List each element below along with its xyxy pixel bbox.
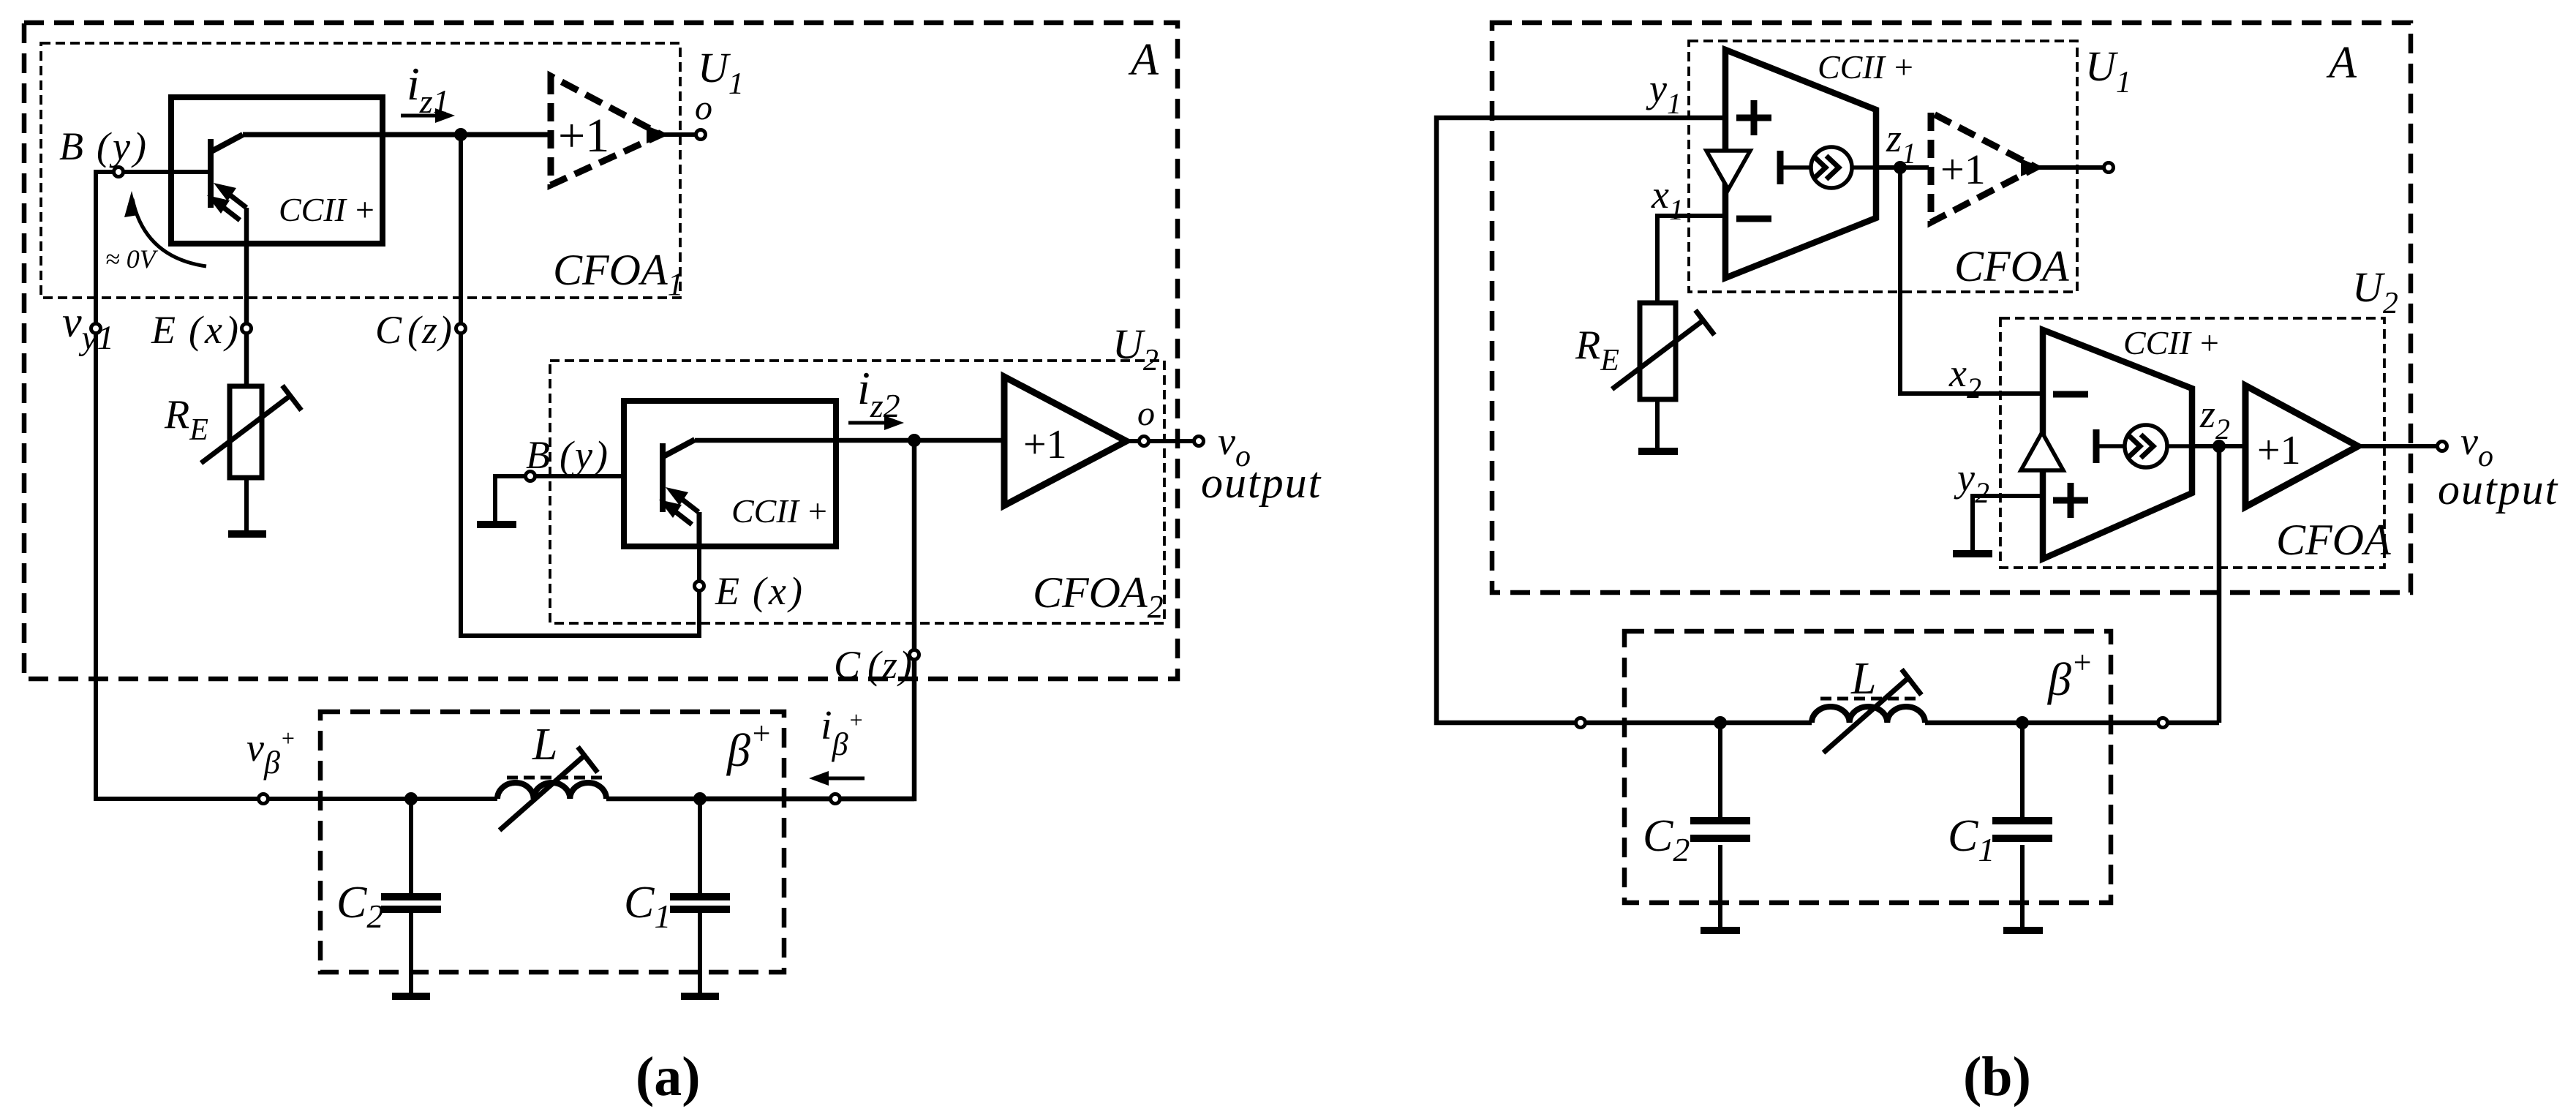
svg-text:output: output	[1201, 459, 1322, 507]
inductor L adjust arrow (panel b)	[1823, 677, 1909, 753]
CFOA1 inner dotted box	[41, 43, 680, 298]
resistor RE arrow head bar	[282, 386, 301, 410]
0V arrowhead	[124, 191, 138, 217]
svg-text:C(z): C(z)	[834, 643, 914, 687]
junction node C2 top (panel b)	[1714, 716, 1727, 729]
ground at B(y)2 stub	[477, 521, 516, 528]
ground under RE (panel b)	[1638, 448, 1678, 455]
wire tank right segment	[606, 797, 914, 802]
svg-text:L: L	[1850, 654, 1876, 704]
svg-text:B(y): B(y)	[526, 433, 610, 477]
resistor RE adjust arrow	[201, 395, 291, 463]
wire emitter of Q1 down through E(x) to resistor RE	[244, 208, 249, 386]
wire y1 feedback rail	[1436, 118, 1812, 723]
buffer U1 apex arrowhead	[647, 126, 669, 143]
wire z1 vertical C(z) to E(x) of CCII2	[461, 135, 699, 636]
wire U1 buffer output (panel b)	[2036, 165, 2104, 170]
junction node z2 (panel b)	[2212, 440, 2226, 453]
terminal C(z)1	[456, 324, 466, 334]
svg-text:≈ 0V: ≈ 0V	[105, 244, 159, 274]
transistor Q2 emitter arrow 2	[659, 500, 692, 524]
junction node C2 top	[404, 792, 418, 805]
transistor Q2 base bar	[660, 443, 666, 512]
svg-text:CCII+: CCII+	[279, 191, 376, 228]
junction node z1 (panel b)	[1894, 161, 1907, 174]
inductor L arrow head bar (panel b)	[1902, 669, 1921, 695]
wire U1 buffer output to open terminal o	[660, 132, 701, 137]
resistor RE body (panel a)	[230, 386, 262, 478]
svg-text:CFOA: CFOA	[2276, 516, 2391, 564]
junction node C1 top (panel b)	[2016, 716, 2029, 729]
transistor Q2 collector diagonal	[663, 440, 695, 456]
wire RE bottom to ground	[244, 478, 249, 532]
buffer U2 solid triangle (panel b)	[2245, 386, 2358, 507]
CCII2 trapezoid (panel b)	[2043, 330, 2192, 559]
CCII1 trapezoid (panel b)	[1725, 50, 1876, 278]
CCII1 follower triangle	[1706, 151, 1750, 189]
transistor Q2 emitter vertical	[697, 512, 702, 546]
wire RE bottom to ground (panel b)	[1655, 399, 1660, 448]
svg-text:o: o	[1137, 394, 1155, 433]
buffer U1 dashed triangle +1	[551, 76, 661, 185]
wire C2 branch top	[409, 799, 413, 893]
terminal B(y)2	[526, 472, 535, 481]
wire B(y) node to left rail and down to tank	[96, 172, 497, 799]
0V curved arrow	[132, 199, 206, 266]
CFOA1 inner dotted box (panel b)	[1689, 41, 2077, 292]
buffer U1 dashed triangle (panel b)	[1931, 113, 2036, 222]
ground at y2 stub	[1953, 550, 1992, 557]
ground under C2 (panel b)	[1701, 927, 1740, 934]
terminal vo (panel b)	[2438, 442, 2447, 451]
buffer U2 solid triangle +1	[1004, 377, 1126, 505]
capacitor C1 plates (panel a)	[670, 897, 730, 909]
wire z2: collector of Q2 to buffer U2 input	[695, 438, 1004, 443]
resistor RE arrow head bar (panel b)	[1695, 310, 1714, 335]
capacitor C2 plates (panel b)	[1690, 821, 1750, 838]
svg-text:CCII+: CCII+	[1818, 48, 1915, 86]
ground under C2 (panel a)	[392, 993, 430, 1000]
terminal tank right (panel b)	[2158, 718, 2168, 728]
iz1 current arrow	[401, 108, 455, 123]
svg-text:B(y): B(y)	[59, 124, 149, 168]
wire z1 out of CCII1	[1876, 165, 1929, 170]
svg-text:(b): (b)	[1963, 1046, 2031, 1107]
inductor L adjust arrow	[500, 755, 585, 830]
terminal vo (panel a)	[1194, 437, 1204, 446]
svg-text:o: o	[695, 89, 712, 127]
ground under C1 (panel a)	[681, 993, 719, 1000]
transistor Q1 collector diagonal	[211, 135, 243, 151]
terminal o1	[696, 130, 706, 140]
CFOA2 inner dotted box (panel b)	[2000, 318, 2384, 568]
svg-text:CFOA1: CFOA1	[553, 246, 684, 302]
terminal E(x)1	[242, 324, 252, 334]
transistor Q1 emitter arrow 2	[207, 195, 240, 220]
svg-text:CFOA2: CFOA2	[1033, 568, 1164, 625]
svg-text:+1: +1	[1940, 146, 1986, 193]
inductor L dashed overline	[507, 776, 602, 780]
wire z1 down to x2	[1900, 168, 2043, 394]
svg-text:+1: +1	[558, 109, 609, 162]
svg-text:CFOA: CFOA	[1954, 242, 2069, 290]
inductor L coils (panel b)	[1812, 707, 1925, 723]
CCII2 minus input sign	[2053, 391, 2088, 398]
wire tank right segment (panel b)	[1925, 721, 2219, 726]
svg-text:(a): (a)	[636, 1046, 701, 1107]
CCII1 mirror output wire	[1852, 165, 1876, 170]
inductor L coils (panel a)	[497, 783, 606, 799]
capacitor C1 plates (panel b)	[1992, 821, 2052, 838]
ibeta+ current arrow (panel a)	[809, 771, 865, 786]
wire U2 buffer output to vo terminal	[1126, 439, 1199, 443]
wire x1 to RE	[1657, 216, 1725, 303]
CCII2 mirror input wire	[2096, 444, 2125, 448]
resistor RE body (panel b)	[1640, 303, 1676, 399]
capacitor C2 plates (panel a)	[381, 897, 441, 909]
beta+ resonator dashed box (panel a)	[320, 712, 784, 972]
junction node z2	[908, 434, 921, 447]
terminal o2	[1140, 437, 1149, 446]
terminal E(x)2	[695, 582, 704, 591]
wire C1 branch top	[698, 799, 702, 893]
terminal vbeta+	[259, 794, 268, 804]
block A outer dashed box (panel b)	[1492, 23, 2411, 593]
junction node C1 top	[693, 792, 707, 805]
wire C2 branch (panel b)	[1718, 723, 1722, 928]
terminal U1 output (panel b)	[2104, 163, 2114, 173]
terminal ibeta+ (panel a)	[831, 794, 840, 804]
CCII block 2 thick rectangle	[624, 401, 836, 546]
svg-text:output: output	[2438, 465, 2558, 514]
wire B(y)2 ground stub	[495, 476, 624, 522]
terminal C(z)2	[910, 650, 919, 660]
beta+ resonator dashed box (panel b)	[1624, 631, 2111, 903]
CCII2 mirror input bar	[2093, 429, 2100, 463]
CCII1 mirror chevrons	[1813, 156, 1839, 179]
wire C1 branch (panel b)	[2020, 723, 2025, 928]
inductor L dashed overline (panel b)	[1820, 697, 1920, 701]
transistor Q2 emitter arrow 1	[666, 487, 698, 512]
svg-text:E(x): E(x)	[715, 569, 805, 613]
wire z1 top: collector of Q1 to buffer U1 input	[243, 132, 551, 138]
svg-text:+1: +1	[2257, 428, 2301, 473]
svg-text:CCII+: CCII+	[2123, 324, 2221, 361]
transistor Q1 emitter arrow 1	[214, 183, 246, 208]
svg-text:CCII+: CCII+	[731, 492, 829, 530]
CCII1 mirror circle	[1811, 147, 1852, 188]
CCII1 mirror input bar	[1777, 151, 1784, 184]
transistor Q1 base bar	[208, 139, 214, 208]
terminal B(y)1	[114, 168, 124, 177]
ground under RE (panel a)	[228, 530, 266, 538]
inductor L arrow head bar	[578, 747, 598, 772]
svg-text:L: L	[532, 720, 557, 770]
terminal vy1	[91, 324, 101, 334]
wire U2 buffer output to vo (panel b)	[2358, 444, 2438, 448]
CCII1 mirror input wire	[1780, 165, 1811, 170]
wire z2 vertical down through C(z) to tank	[698, 440, 914, 799]
svg-text:E(x): E(x)	[151, 308, 241, 352]
wire z2 out of CCII2	[2192, 444, 2245, 448]
block A outer dashed box (panel a)	[24, 23, 1178, 679]
resistor RE adjust arrow (panel b)	[1612, 320, 1704, 389]
CCII2 mirror chevrons	[2128, 435, 2153, 458]
wire C2 branch bottom	[409, 912, 413, 993]
terminal tank left (panel b)	[1576, 718, 1586, 728]
buffer U1 apex arrowhead (panel b)	[2021, 159, 2042, 176]
CCII2 follower triangle	[2021, 432, 2063, 470]
wire y2 ground stub	[1973, 496, 2043, 550]
wire z2 down to tank	[2217, 446, 2222, 723]
CFOA2 inner dotted box	[550, 361, 1164, 623]
svg-text:C(z): C(z)	[375, 308, 453, 352]
ground under C1 (panel b)	[2003, 927, 2043, 934]
junction node z1	[454, 128, 467, 141]
CCII1 plus input sign	[1736, 100, 1771, 135]
CCII2 mirror output wire	[2167, 444, 2192, 448]
CCII2 mirror circle	[2125, 425, 2167, 467]
svg-text:+1: +1	[1023, 422, 1067, 467]
CCII block 1 thick rectangle	[171, 97, 383, 244]
CCII2 plus input sign	[2053, 483, 2088, 518]
svg-text:A: A	[1128, 35, 1159, 85]
CCII1 minus input sign	[1736, 216, 1771, 222]
wire C1 branch bottom	[698, 912, 702, 993]
iz2 current arrow	[848, 415, 904, 430]
svg-text:A: A	[2326, 38, 2357, 88]
